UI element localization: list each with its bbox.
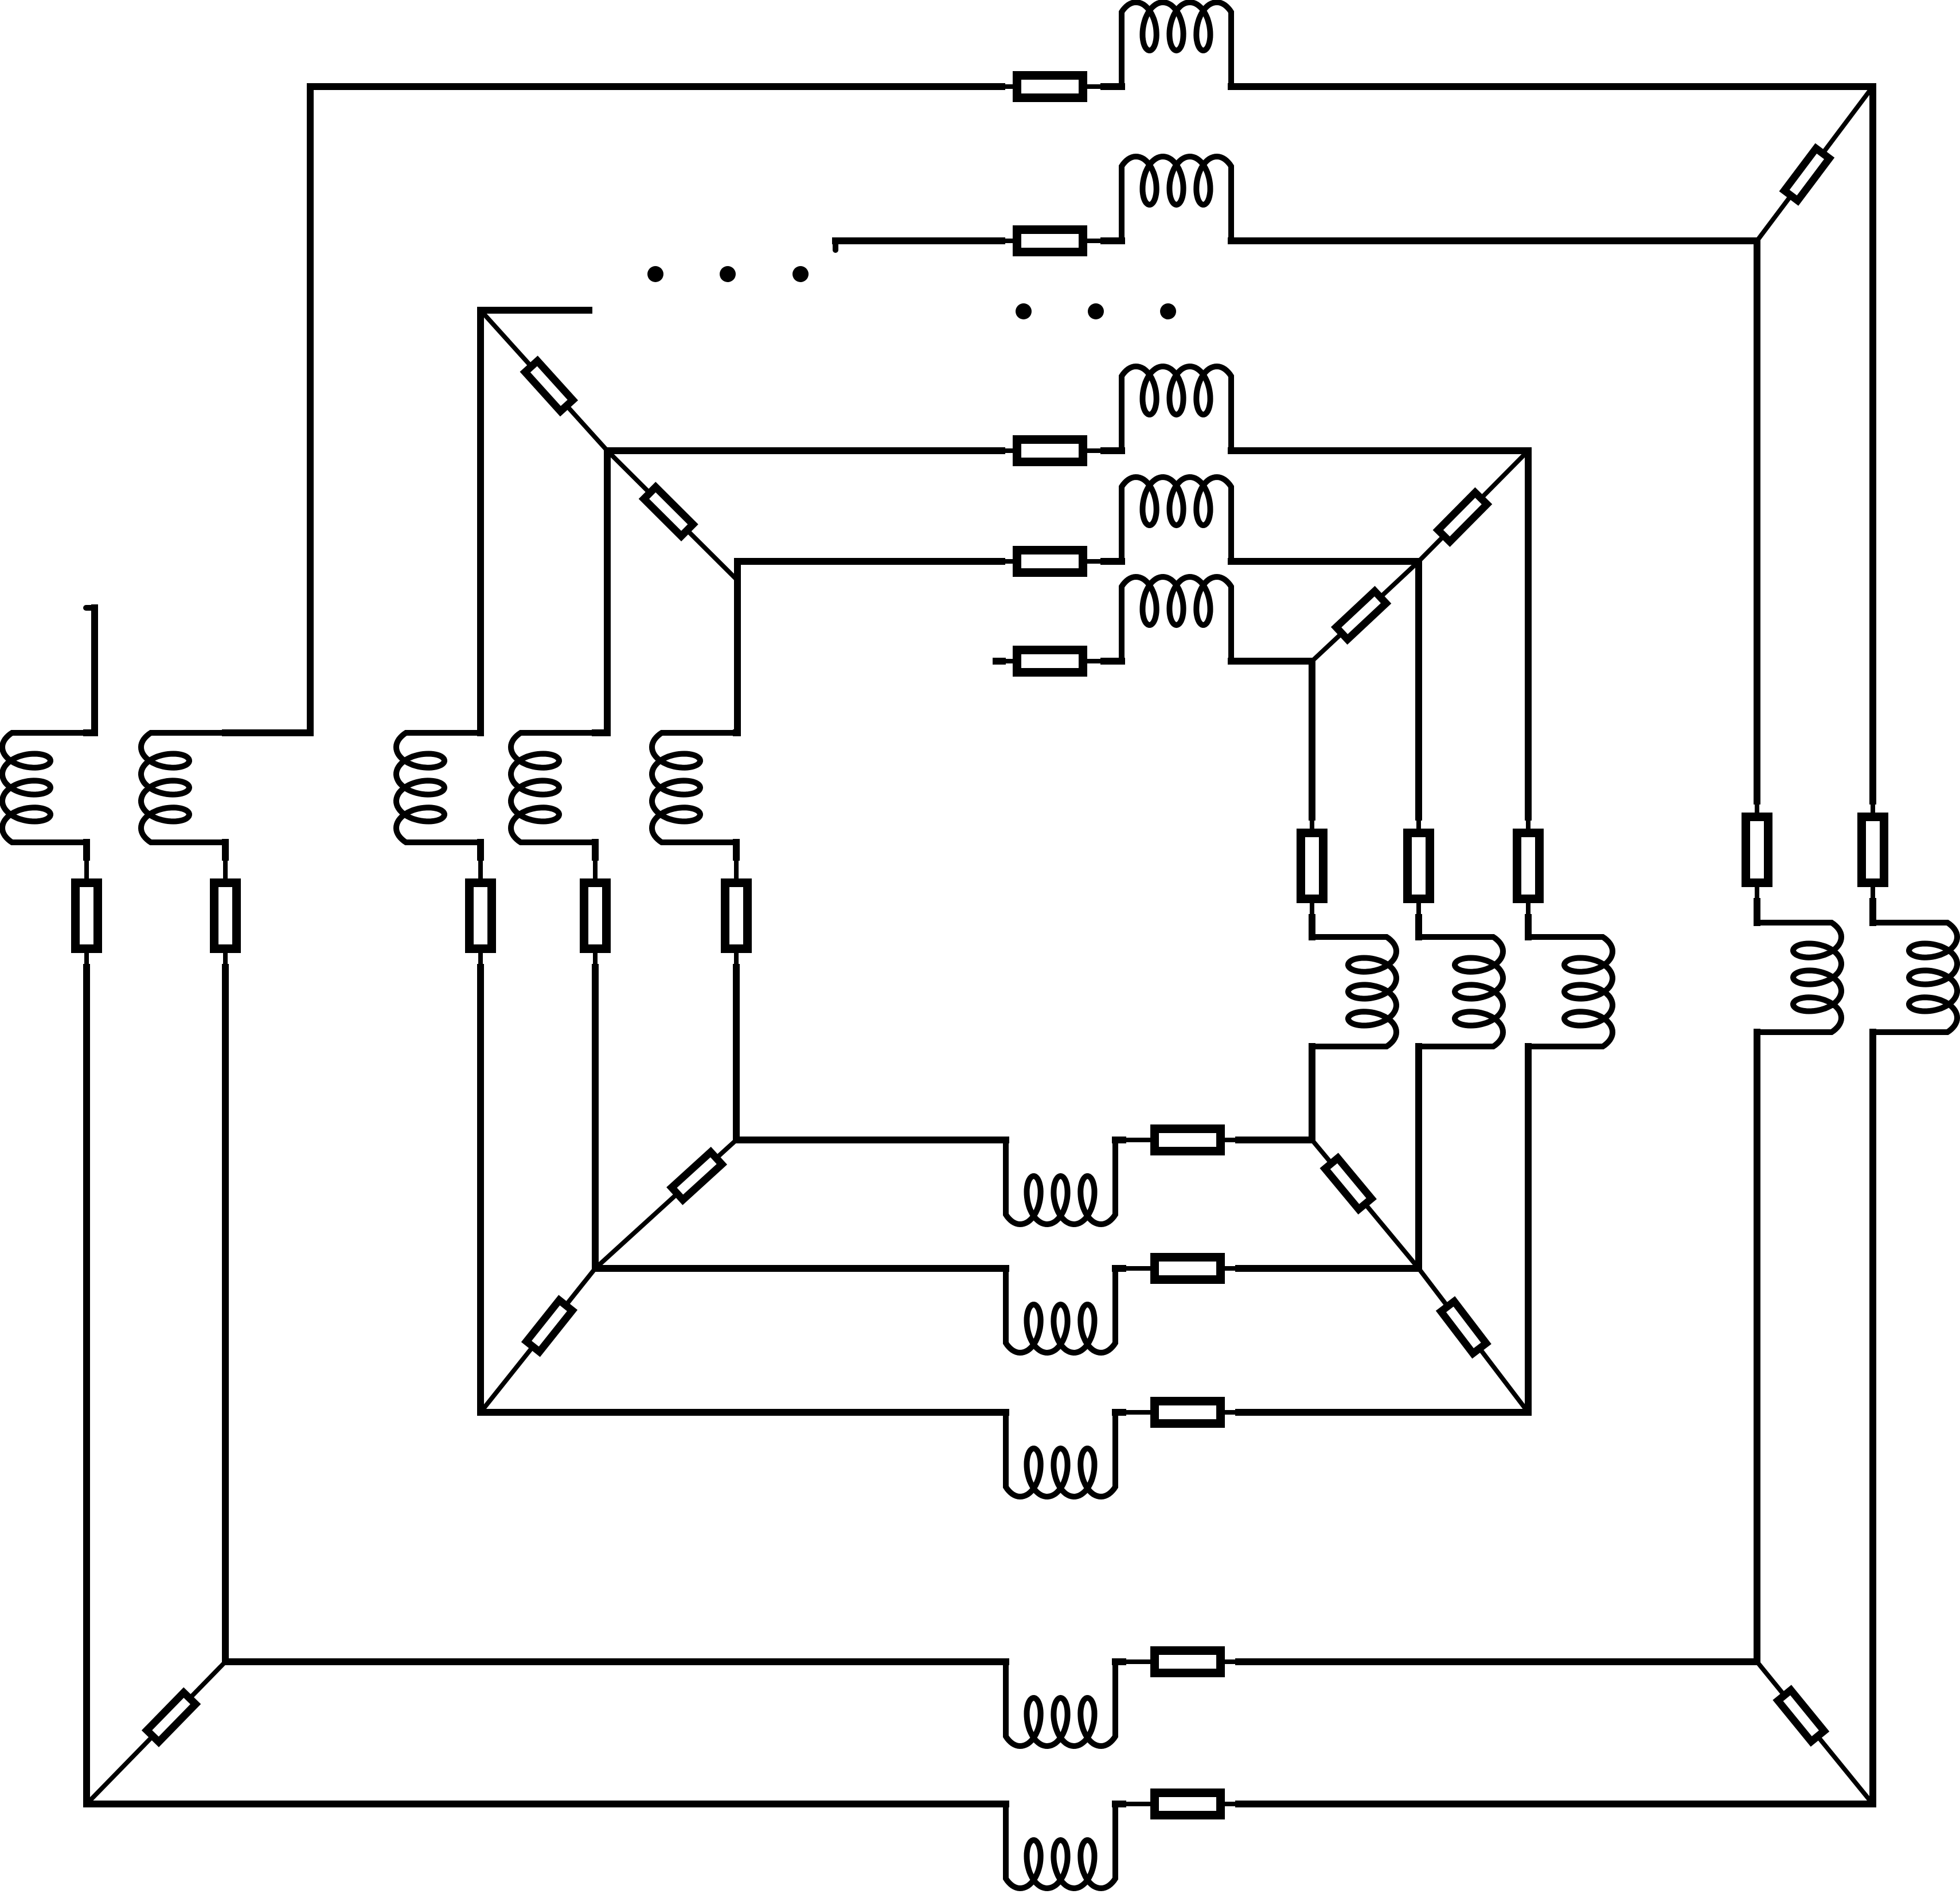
inductor L (loop 5 right edge) [1419,937,1503,1046]
inductor L (loop 6 right edge) [1312,937,1396,1046]
resistor R (loop 3-4 link left branch) [470,883,492,949]
wire: loop 3-4 link left branch L-R link [477,842,484,857]
wire: loop 2 top edge (right part) [1231,237,1757,244]
resistor (bottom-right corner, loop6-loop5) [1325,1158,1372,1209]
wire: loop 1 feed left branch upper vertical [91,608,98,733]
resistor R (loop 1 feed left branch) [76,883,98,949]
wire: loop 6 bottom edge (left part) [736,1137,1006,1143]
wire: loop 4 bottom edge (left part) [481,1409,1006,1416]
inductor L (loop 1 feed left branch) [2,733,87,842]
wire: loop 5 top edge (left part) [737,558,1002,565]
wire: loop 1 feed left branch lower vertical [84,953,89,967]
wire: loop 2 bottom edge (right part) [1225,1659,1239,1664]
wire: loop 4-5 link left branch lower vertical [593,953,598,967]
wire: loop 1 bottom edge (left part) [87,1801,1006,1807]
resistor R (loop 4-5 link left branch) [584,883,607,949]
wire: loop 2 top edge (R-L link) [1087,239,1104,243]
wire: loop 6 right edge (R-L link) [1310,903,1314,917]
wire: diagonal loop5-loop4 (top-right) [1419,451,1528,561]
wire: loop 1 feed left branch L-R link [83,842,90,857]
wire: loop 6 right edge (upper part) [1309,661,1315,817]
wire: loop 6 bottom edge (right part) [1225,1138,1239,1142]
wire: diagonal loop1-loop2 (top-right) [1757,87,1873,241]
resistor R (loop 4 bottom edge) [1155,1401,1221,1424]
wire: loop 2 top edge (left part) [833,241,838,250]
wire: loop 4 bottom edge (L-R link) [1115,1409,1123,1416]
wire: loop 1 feed left branch jog [87,729,95,736]
wire: loop 6 top edge stub nub [996,658,1002,665]
ellipsis dot 6 [1160,303,1176,319]
resistor (bottom-left corner, loop2-loop1) [147,1693,196,1742]
inductor L (loop 1 top edge) [1122,2,1231,87]
resistor (top-right corner, loop5-loop4) [1438,493,1487,542]
wire: loop 5-6 link left branch upper vertical [734,561,741,733]
wire: loop 4 top edge (R-L link) [1087,448,1104,453]
resistor R (loop 1-2 link left branch) [214,883,237,949]
wire: loop 1 right edge (lower part) [1869,1032,1876,1804]
wire: loop 4 top edge (right part) [1231,447,1528,454]
wire: diagonal loop5-loop4 (bottom-left) [481,1268,595,1412]
wire: loop 5 bottom edge (L-R link) [1115,1265,1123,1272]
ellipsis dot 2 [720,266,736,282]
wire: loop 4 bottom edge (right part) [1225,1410,1239,1415]
wire: loop 5 bottom edge (left part) [595,1265,1006,1272]
wire: loop 5 top edge (R-L link) [1087,559,1104,564]
resistor (bottom-right corner, loop5-loop4) [1441,1302,1486,1354]
wire: diagonal loop6-loop5 (bottom-left) [595,1140,736,1268]
wire: diagonal loop5-loop4 (bottom-right) [1419,1268,1528,1412]
resistor (bottom-left corner, loop6-loop5) [671,1152,722,1200]
resistor R (loop 4 right edge) [1517,833,1540,899]
inductor L (loop 4 bottom edge) [1006,1412,1115,1497]
resistor (top-right corner, loop1-loop2) [1785,149,1829,201]
inductor L (loop 3-4 link left branch) [396,733,481,842]
wire: loop 1-2 link left branch upper vertical [307,87,314,733]
wire: loop 5-6 link left branch lower vertical [734,953,739,967]
wire: diagonal loop6-loop5 (top-right) [1312,561,1419,661]
resistor R (loop 1 bottom edge) [1155,1793,1221,1815]
wire: loop 3 top edge stub [481,307,589,314]
wire: loop 1 top edge (left part) [310,83,1002,90]
wire: loop 5 bottom edge (right part) [1225,1266,1239,1271]
wire: loop 4 right edge (R-L link) [1526,903,1530,917]
resistor R (loop 5 bottom edge) [1155,1258,1221,1280]
resistor (bottom-right corner, loop2-loop1) [1778,1690,1824,1741]
wire: loop 6 top edge (right part) [1231,658,1312,665]
resistor R (loop 2 top edge) [1017,230,1083,252]
wire: loop 2 bottom edge (L-R link) [1115,1658,1123,1665]
inductor L (loop 5 top edge) [1122,477,1231,561]
wire: loop 2 right edge (upper part) [1754,241,1760,801]
inductor L (loop 2 bottom edge) [1006,1662,1115,1746]
wire: loop 1 right edge (R-L link) [1871,887,1875,901]
resistor (top-left corner, loop4-loop5) [644,487,693,536]
resistor R (loop 6 top edge) [1017,650,1083,673]
resistor R (loop 2 right edge) [1746,817,1768,883]
wire: loop 4-5 link left branch upper vertical [604,451,611,733]
resistor R (loop 5 right edge) [1408,833,1430,899]
wire: loop 1-2 link left branch lower vertical [223,953,228,967]
wire: loop 6 bottom edge (L-R link) [1115,1137,1123,1143]
wire: loop 5 right edge (upper part) [1415,561,1422,817]
wire: loop 5 right edge (R-L link) [1416,903,1421,917]
wire: diagonal loop6-loop5 (bottom-right) [1312,1140,1419,1268]
resistor R (loop 4 top edge) [1017,440,1083,462]
inductor L (loop 4 right edge) [1528,937,1612,1046]
resistor R (loop 1 right edge) [1862,817,1884,883]
inductor L (loop 5 bottom edge) [1006,1268,1115,1353]
wire: loop 4 right edge (lower part) [1525,1046,1532,1412]
inductor L (loop 6 bottom edge) [1006,1140,1115,1224]
wire: loop 6 top edge R-L link [1087,659,1104,663]
wire: diagonal loop3-loop4 (top-left) [481,310,607,451]
wire: loop 1-2 link left branch jog [225,729,310,736]
inductor L (loop 5-6 link left branch) [652,733,736,842]
inductor L (loop 1 bottom edge) [1006,1804,1115,1888]
wire: loop 1 bottom edge (L-R link) [1115,1801,1123,1807]
wire: loop 5 top edge (right part) [1231,558,1419,565]
wire: loop 6 right edge (lower part) [1309,1046,1315,1140]
resistor R (loop 5-6 link left branch) [725,883,748,949]
inductor L (loop 4 top edge) [1122,366,1231,451]
wire: diagonal loop2-loop1 (bottom-right) [1757,1662,1873,1804]
resistor R (loop 6 right edge) [1301,833,1323,899]
wire: loop 4-5 link left branch jog [595,729,607,736]
resistor (bottom-left corner, loop5-loop4) [526,1300,572,1352]
wire: loop 3-4 link left branch upper vertical [477,310,484,733]
wire: loop 5 right edge (lower part) [1415,1046,1422,1268]
wire: loop 1 bottom edge (right part) [1225,1802,1239,1806]
wire: loop 1 top edge (right part) [1231,83,1873,90]
wire: loop 1 top edge (R-L link) [1087,84,1104,89]
inductor L (loop 2 right edge) [1757,923,1841,1032]
wire: loop 5-6 link left branch jog [736,729,737,736]
ellipsis dot 4 [1016,303,1032,319]
wire: diagonal loop2-loop1 (bottom-left) [87,1662,225,1804]
wire: loop 1 right edge (upper part) [1869,87,1876,801]
ellipsis dot 3 [792,266,809,282]
resistor R (loop 5 top edge) [1017,550,1083,573]
inductor L (loop 6 top edge) [1122,577,1231,661]
resistor (top-left corner, loop3-loop4) [525,361,573,411]
wire: loop 1-2 link left branch L-R link [222,842,229,857]
wire: loop 4-5 link left branch L-R link [592,842,599,857]
resistor R (loop 2 bottom edge) [1155,1651,1221,1673]
resistor (top-right corner, loop6-loop5) [1336,591,1386,639]
wire: loop 2 right edge (lower part) [1754,1032,1760,1662]
inductor L (loop 1-2 link left branch) [141,733,225,842]
wire: loop 3-4 link left branch lower vertical [478,953,483,967]
wire: loop 2 right edge (R-L link) [1755,887,1759,901]
wire: loop 2 bottom edge (left part) [225,1658,1006,1665]
resistor R (loop 1 top edge) [1017,76,1083,98]
inductor L (loop 4-5 link left branch) [511,733,595,842]
wire: diagonal loop4-loop5 (top-left) [607,451,737,580]
wire: spiral outer stub tick [86,605,95,611]
resistor R (loop 6 bottom edge) [1155,1129,1221,1151]
inductor L (loop 1 right edge) [1873,923,1957,1032]
ellipsis dot 1 [647,266,663,282]
wire: loop 5-6 link left branch L-R link [733,842,740,857]
ellipsis dot 5 [1088,303,1104,319]
inductor L (loop 2 top edge) [1122,157,1231,241]
wire: loop 4 right edge (upper part) [1525,451,1532,817]
wire: loop 4 top edge (left part) [607,447,1002,454]
